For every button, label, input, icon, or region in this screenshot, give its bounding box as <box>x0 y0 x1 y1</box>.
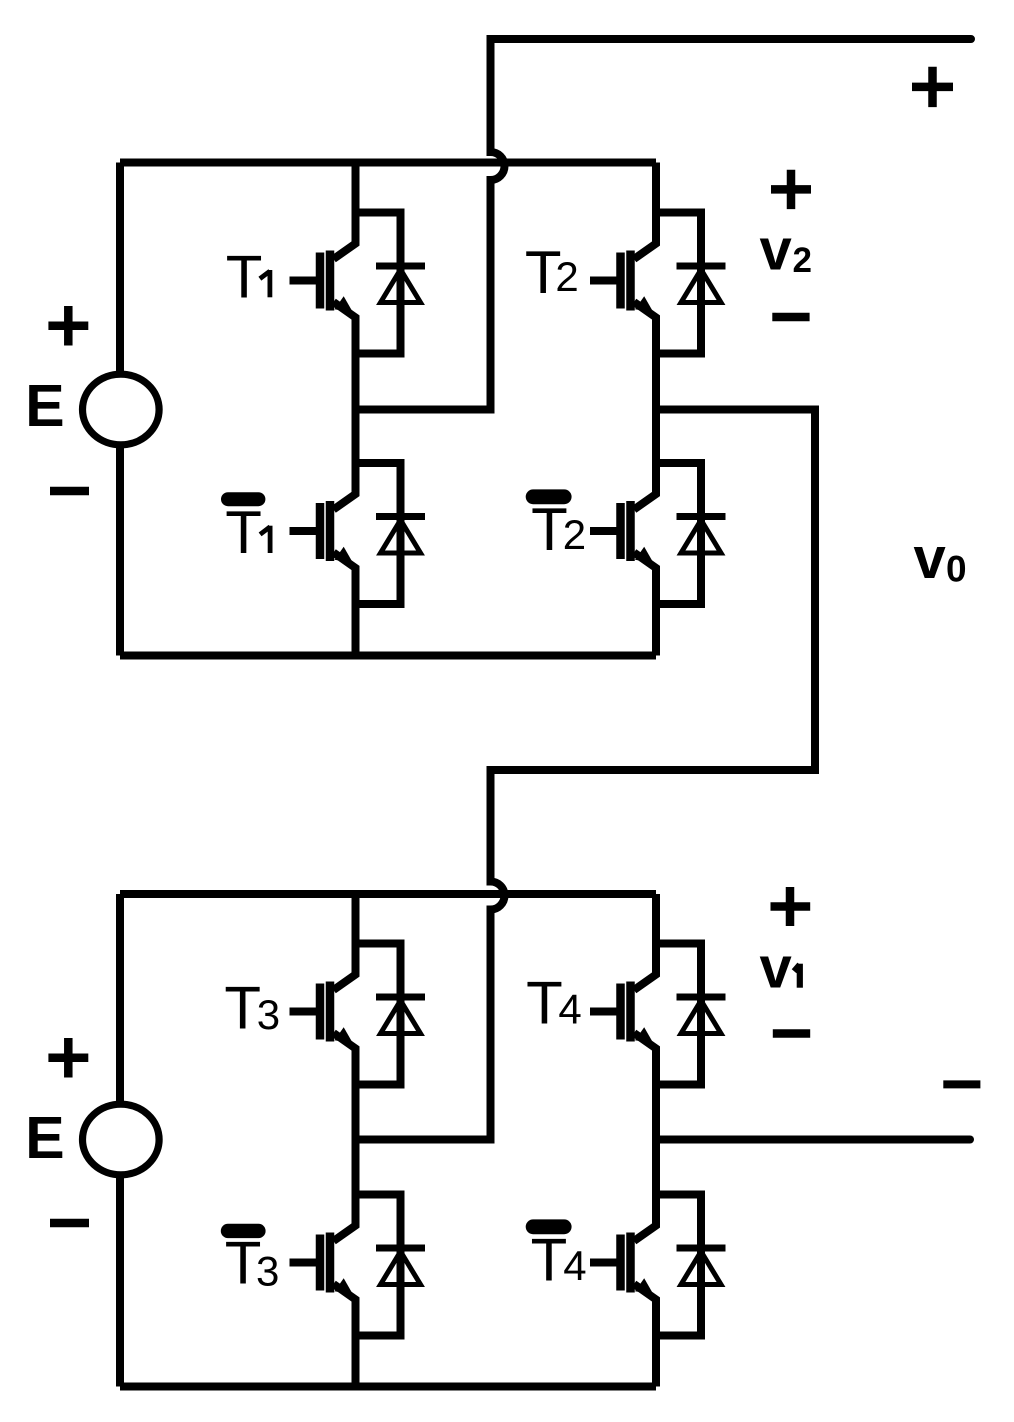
svg-text:v: v <box>760 218 792 283</box>
svg-text:0: 0 <box>946 549 967 590</box>
diode of T3b (antiparallel) <box>356 1195 426 1336</box>
svg-text:4: 4 <box>563 1242 586 1289</box>
transistor T3b (IGBT) <box>290 1140 356 1387</box>
label T2 <box>525 239 579 306</box>
wire: bottom rail of cell <box>120 1383 656 1391</box>
label T1 <box>226 243 270 310</box>
svg-text:4: 4 <box>558 986 581 1033</box>
label + (top output) <box>912 67 953 107</box>
svg-text:E: E <box>25 1105 64 1171</box>
svg-text:2: 2 <box>793 241 812 280</box>
label + of source <box>48 306 88 346</box>
diode of T2 (antiparallel) <box>656 213 726 354</box>
transistor T2 (IGBT) <box>590 163 656 410</box>
wire: top rail of cell <box>120 159 656 167</box>
label - of source <box>50 1219 89 1228</box>
wire: top rail of cell <box>120 890 656 898</box>
wire: bottom rail of cell <box>120 652 656 660</box>
diode of T4 (antiparallel) <box>656 944 726 1085</box>
label T3b <box>221 1224 280 1297</box>
label v2 with polarity <box>771 170 811 209</box>
svg-text:3: 3 <box>257 991 280 1038</box>
svg-text:T: T <box>531 1227 568 1294</box>
svg-text:E: E <box>25 373 64 439</box>
label T4 <box>526 969 582 1036</box>
svg-text:v: v <box>760 936 792 1001</box>
wire: node b1 to v0 drop and crossover hop to node a2 <box>356 410 816 1140</box>
transistor T1b (IGBT) <box>290 410 356 656</box>
diode of T2b (antiparallel) <box>656 463 726 604</box>
transistor T3 (IGBT) <box>290 894 356 1140</box>
transistor T2b (IGBT) <box>590 410 656 656</box>
wire: left source branch <box>116 163 124 656</box>
voltage source E <box>83 374 160 445</box>
label v1 with polarity <box>771 887 811 926</box>
svg-text:T: T <box>526 969 563 1036</box>
transistor T1 (IGBT) <box>290 163 356 410</box>
diode of T3 (antiparallel) <box>356 944 426 1085</box>
label + of source <box>48 1038 88 1078</box>
diode of T1b (antiparallel) <box>356 463 426 604</box>
svg-text:3: 3 <box>256 1248 279 1295</box>
svg-text:2: 2 <box>563 511 586 558</box>
label T4b <box>526 1219 587 1293</box>
label T1b <box>221 492 270 566</box>
label T2b <box>526 489 586 563</box>
transistor T4b (IGBT) <box>590 1140 656 1387</box>
wire: positive output terminal with crossover hop to node a1 <box>356 39 972 410</box>
label - of source <box>50 487 89 496</box>
diode of T4b (antiparallel) <box>656 1195 726 1336</box>
transistor T4 (IGBT) <box>590 894 656 1140</box>
svg-text:T: T <box>226 243 263 310</box>
diode of T1 (antiparallel) <box>356 213 426 354</box>
voltage source E <box>83 1104 160 1175</box>
svg-text:T: T <box>224 975 261 1042</box>
svg-text:2: 2 <box>555 253 578 300</box>
svg-text:T: T <box>225 499 262 566</box>
label T3 <box>224 975 280 1042</box>
wire: left source branch <box>116 894 124 1387</box>
svg-text:v: v <box>914 526 946 591</box>
label - (bottom output) <box>943 1080 980 1088</box>
wire: negative output from node b2 <box>656 1136 970 1144</box>
